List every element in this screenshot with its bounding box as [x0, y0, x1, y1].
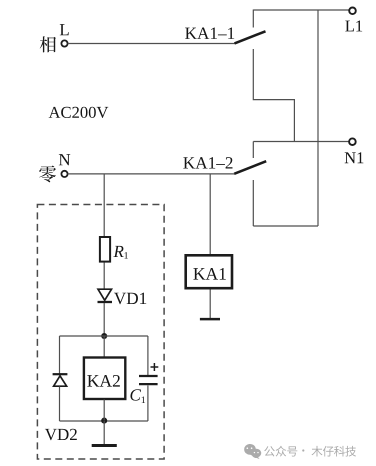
- wire: VD2 down to bottom rail: [59, 387, 61, 422]
- terminal L1: [349, 8, 356, 15]
- wire: N (neutral) line to KA1-2: [68, 173, 235, 175]
- label L: [60, 24, 69, 35]
- wire: N1 horizontal line: [253, 141, 349, 143]
- ground (below KA2): [92, 421, 117, 446]
- label N: [59, 154, 70, 165]
- wire: top horizontal of KA2 cell: [60, 335, 148, 337]
- label R1: [113, 246, 128, 259]
- wire: left vertical of right loop (below KA1-2): [252, 180, 254, 226]
- watermark: WeChat icon: [244, 444, 261, 459]
- terminal N: [61, 171, 67, 177]
- label VD2: [45, 429, 77, 441]
- wire: L (phase) line to KA1-1: [68, 43, 235, 45]
- wire: zigzag below KA1-1 down to N1 line: [253, 49, 294, 142]
- junction (top node): [101, 333, 107, 339]
- wire: branch down to KA1 coil: [209, 174, 211, 256]
- label KA1-1: [185, 28, 234, 39]
- label AC200V: [49, 107, 109, 118]
- wire: top horizontal to L1: [253, 9, 349, 11]
- wire: bottom horizontal of right loop: [253, 225, 318, 227]
- wire: VD1 down to junction: [103, 303, 105, 336]
- wire: cap branch top: [147, 336, 149, 375]
- relay coil KA1: [186, 255, 232, 288]
- terminal L: [61, 40, 67, 46]
- relay contact KA1-2 (blade + fixed contact): [234, 142, 266, 174]
- wire: junction to KA2 top: [103, 336, 105, 358]
- terminal N1: [349, 138, 356, 145]
- label 相 (phase): [40, 36, 56, 52]
- resistor R1: [100, 237, 110, 262]
- enclosure: dashed module box: [37, 205, 164, 460]
- wire: KA2 bottom to junction: [103, 400, 105, 421]
- relay contact KA1-1 (blade + fixed contact): [235, 10, 266, 44]
- junction (bottom node): [101, 418, 107, 424]
- label 零 (neutral): [39, 166, 56, 183]
- wire: right vertical from top line down: [317, 10, 319, 226]
- wire: bottom horizontal of KA2 cell: [60, 420, 148, 422]
- watermark: 公众号 · 木仔科技: [264, 446, 356, 457]
- label VD1: [114, 293, 146, 305]
- wire: cap branch bottom: [147, 386, 149, 422]
- ground (below KA1): [200, 318, 220, 321]
- relay coil KA2: [84, 358, 125, 400]
- wire: branch down to R1: [103, 174, 105, 237]
- wire: R1 to VD1: [103, 263, 105, 290]
- diode VD1 (cathode down): [98, 289, 113, 302]
- label N1: [345, 152, 364, 163]
- wire: left branch down to VD2: [59, 336, 61, 374]
- label KA1-2: [183, 157, 232, 168]
- plus sign of C1: [151, 363, 159, 371]
- label L1: [345, 21, 362, 32]
- diode VD2 (cathode up): [53, 374, 68, 386]
- label C1: [130, 389, 145, 403]
- capacitor C1 (polarized): [139, 376, 158, 384]
- wire: KA1 to ground: [209, 290, 211, 319]
